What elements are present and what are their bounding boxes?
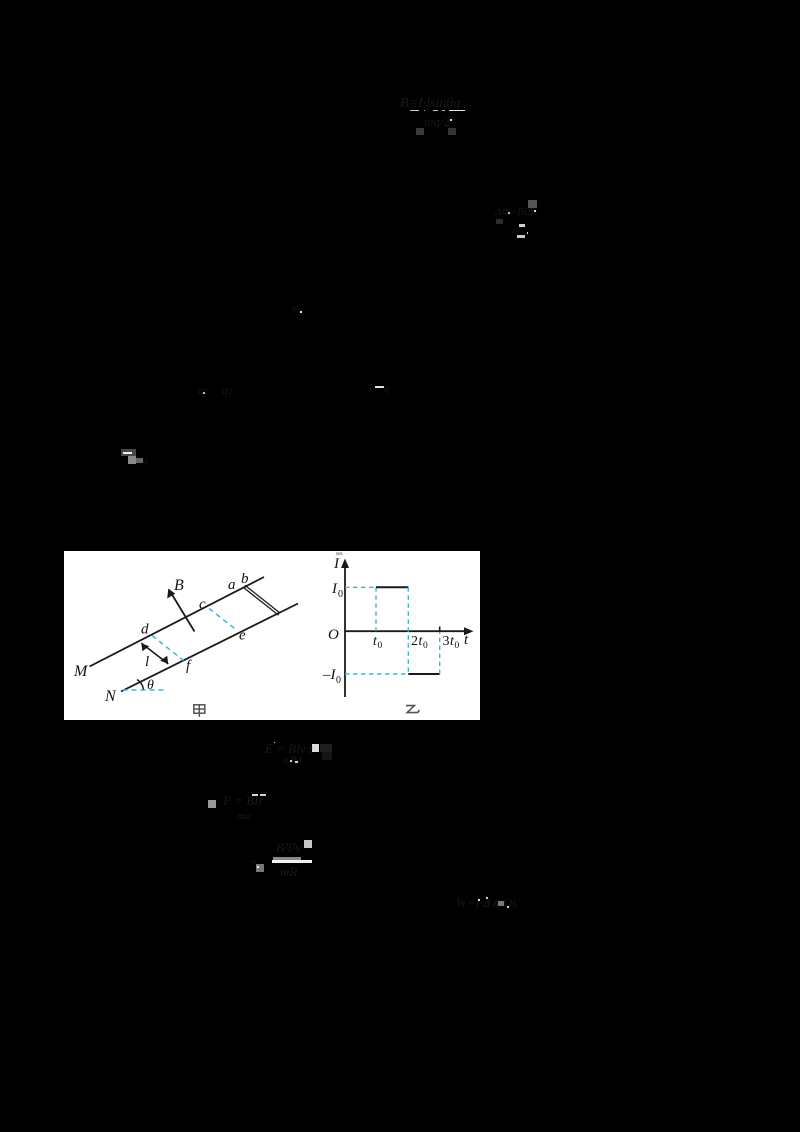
upper rail M [89,577,264,667]
tiny fragment C [292,304,304,315]
cluster D [198,383,208,399]
svg-text:θ: θ [147,678,154,693]
svg-text:t: t [464,632,469,648]
I axis [344,562,346,697]
solid bottom segment [408,673,439,675]
cluster F [121,449,137,456]
l double arrow [141,643,168,664]
svg-text:–I: –I [322,667,337,683]
svg-text:3: 3 [442,634,449,649]
svg-text:0: 0 [336,675,341,686]
lower rail N [121,604,298,692]
label yi (drawn) [406,706,419,713]
formula G [312,744,320,752]
rod ab double line [243,587,278,615]
svg-text:2: 2 [411,634,418,649]
tick 3t0 [438,627,440,633]
dashed I0 level [345,586,376,588]
formula A underline dashes (white) [410,110,419,112]
formula block A line 2 [416,128,424,135]
solid top segment [376,586,408,588]
svg-text:e: e [239,628,246,644]
svg-text:I: I [333,556,340,572]
formula block B [528,200,537,208]
svg-text:f: f [186,658,192,674]
figure box [64,551,481,720]
theta dashed horizontal [122,689,163,691]
svg-text:0: 0 [377,641,382,651]
svg-text:d: d [141,622,149,638]
dashed vertical 2t0 [407,587,409,674]
cluster E with white dash [369,383,397,393]
t axis [345,630,470,632]
svg-text:B: B [174,577,184,594]
dashed vertical t0 [375,587,377,631]
formula I (fraction) [304,840,312,849]
label jia (drawn) [193,705,204,717]
formula block A line 1 [400,96,470,112]
dashed -I0 level [345,673,408,675]
dashed c-e [209,609,237,631]
dashed d-f [152,636,184,661]
svg-text:b: b [241,571,249,587]
svg-text:O: O [328,627,339,643]
axis-top artifact [336,552,343,555]
svg-text:M: M [73,663,89,680]
svg-text:N: N [104,688,117,705]
svg-text:a: a [228,577,236,593]
svg-text:I: I [331,581,338,597]
formula H [208,800,216,808]
theta arc [137,680,144,690]
svg-text:l: l [145,654,149,670]
dashed vertical 3t0 [438,632,440,675]
formula J [456,895,520,911]
svg-text:0: 0 [423,641,428,651]
svg-text:0: 0 [338,589,343,600]
svg-text:0: 0 [454,641,459,651]
svg-text:c: c [199,597,206,613]
B field arrow [169,590,195,632]
